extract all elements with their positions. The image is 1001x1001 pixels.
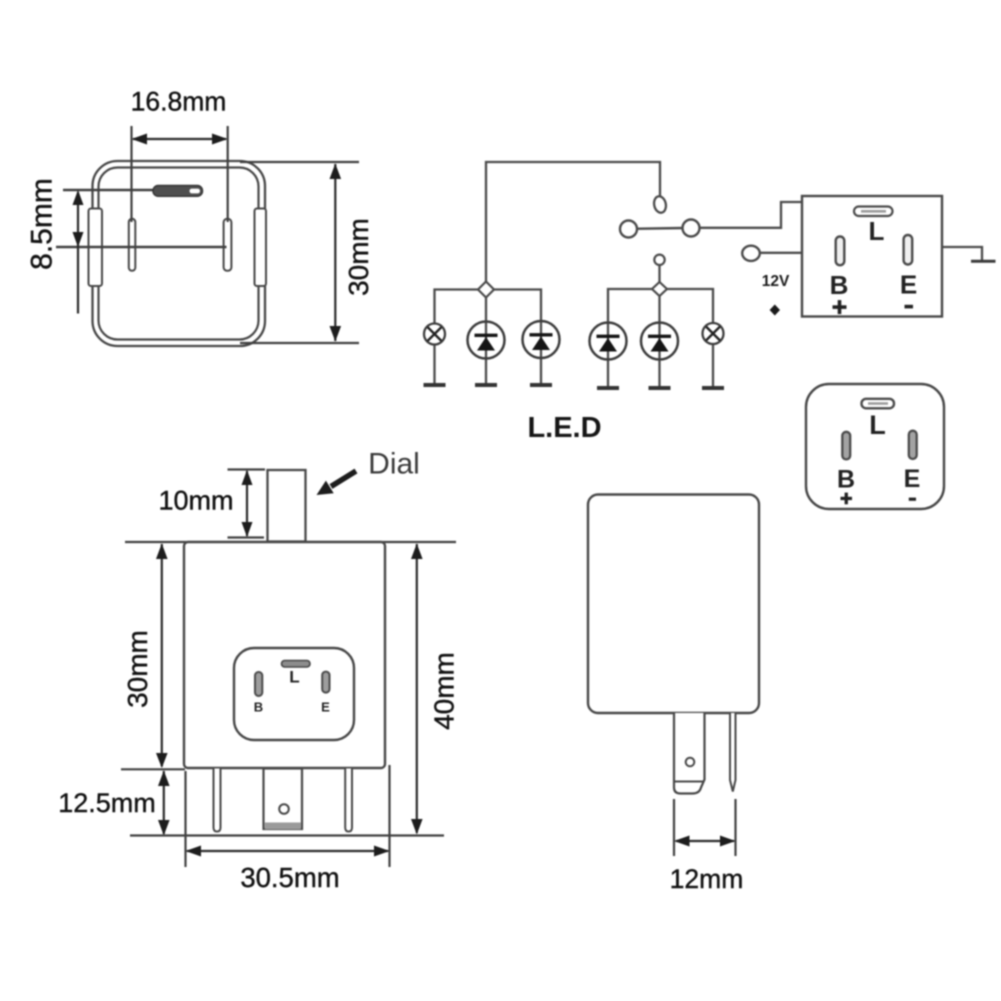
label plus (connector D) [841, 493, 853, 505]
wire box to ground [942, 247, 982, 260]
dimension 12.5mm arrow [158, 771, 170, 836]
dimension 16.8mm extension line right [227, 126, 229, 222]
dimension 16.8mm extension line left [130, 126, 132, 222]
label B (face) [254, 700, 263, 715]
svg-text:10mm: 10mm [158, 486, 233, 516]
wire switch to relay box [700, 202, 803, 228]
dial knob [268, 470, 306, 542]
terminal pin left (bottom view) [129, 219, 136, 271]
LED D3 [590, 323, 627, 389]
key slot (dark bar) [153, 186, 203, 197]
body bottom extension line left [121, 768, 185, 770]
node diamond left [478, 282, 494, 298]
label L (connector D) [869, 410, 886, 440]
pin E (face) [322, 672, 329, 693]
lamp right [703, 323, 724, 388]
svg-text:B: B [254, 700, 263, 715]
dimension 30mm(A) arrow [330, 164, 342, 342]
relay body (side view) [184, 542, 385, 768]
center blade terminal [264, 769, 303, 830]
dimension 10mm tick top [228, 468, 266, 470]
dimension 30.5mm tick right [388, 765, 390, 867]
dimension 10mm label [158, 486, 233, 516]
label minus (connector D) [909, 498, 916, 501]
pin B (connector D) [842, 432, 850, 460]
ground (LED D4) [649, 386, 671, 390]
terminal pin right (bottom view) [224, 219, 232, 271]
ground (LED D2) [530, 383, 552, 387]
svg-text:12V: 12V [762, 273, 790, 290]
dimension 30mm(E) label [122, 630, 153, 708]
dimension 30.5mm tick left [184, 771, 186, 867]
svg-text:30mm: 30mm [343, 218, 374, 296]
label B (connector D) [837, 466, 855, 494]
label minus (box C) [905, 305, 914, 309]
lamp left [424, 324, 445, 386]
dimension 10mm tick bottom [228, 536, 265, 538]
wire top run [486, 162, 660, 289]
connector D outline [806, 384, 944, 509]
dimension 40mm arrow [411, 544, 423, 835]
svg-text:30.5mm: 30.5mm [240, 862, 339, 893]
right LED4 drop wire [658, 294, 660, 323]
center blade terminal (F) [674, 713, 705, 794]
ground (LED D3) [597, 386, 619, 390]
svg-text:12mm: 12mm [670, 864, 744, 894]
relay case outer outline [93, 161, 266, 346]
pin E (connector D) [909, 431, 917, 459]
pin E (box C) [904, 235, 913, 265]
reference line 8.5mm bottom (to right pin) [56, 246, 227, 248]
12V supply terminal [742, 246, 760, 261]
svg-text:E: E [900, 270, 917, 300]
label E (connector D) [904, 465, 921, 493]
slot L (box C) [854, 207, 893, 217]
svg-text:L: L [289, 668, 299, 687]
left LED1 drop wire [485, 294, 487, 324]
dimension 30mm(A) extension line bottom [240, 342, 359, 344]
label L.E.D [527, 412, 601, 444]
svg-text:12.5mm: 12.5mm [58, 788, 156, 818]
ground (box C) [971, 260, 996, 263]
dimension 30mm(A) label [343, 218, 374, 296]
body top extension line [125, 541, 456, 543]
svg-text:40mm: 40mm [429, 652, 460, 730]
label E (box C) [900, 270, 917, 300]
svg-text:8.5mm: 8.5mm [26, 178, 59, 270]
left branch bus wire [435, 290, 542, 324]
left side notch [89, 209, 103, 287]
relay box outline [802, 196, 942, 317]
switch lever wire [619, 228, 684, 229]
dimension 12.5mm label [58, 788, 156, 818]
thin pin (F) [730, 713, 736, 792]
slot L (face) [282, 661, 311, 668]
svg-text:E: E [321, 700, 330, 715]
svg-text:30mm: 30mm [122, 630, 153, 708]
svg-text:L: L [869, 216, 885, 246]
ground (lamp left) [424, 383, 446, 387]
dimension 12mm arrow [674, 836, 736, 847]
bottom extension line long [130, 834, 444, 836]
ground (lamp right) [702, 386, 724, 390]
label E (face) [321, 700, 330, 715]
label B (box C) [830, 270, 849, 300]
LED D2 [523, 321, 560, 385]
dimension 8.5mm label [26, 178, 59, 270]
label Dial [368, 448, 420, 481]
dial pointer arrow [317, 471, 357, 495]
svg-text:B: B [837, 466, 855, 494]
dimension 40mm label [429, 652, 460, 730]
wire contact to node [658, 265, 660, 284]
slot L (connector D) [862, 399, 895, 409]
dimension 30mm(A) extension line top [240, 161, 359, 163]
LED D4 [641, 323, 678, 389]
dimension 16.8mm label [131, 87, 227, 117]
dimension 12mm tick left [673, 799, 675, 856]
dimension 12mm label [670, 864, 744, 894]
wire terminal to box [760, 252, 802, 254]
pin left (side view) [214, 769, 221, 832]
svg-text:L: L [869, 410, 886, 440]
svg-text:L.E.D: L.E.D [527, 412, 601, 444]
label L (box C) [869, 216, 885, 246]
label 12V [762, 273, 790, 290]
svg-text:Dial: Dial [368, 448, 420, 481]
switch moving contact [620, 221, 637, 238]
relay body outline [588, 495, 759, 714]
svg-text:E: E [904, 465, 921, 493]
dimension 30mm(E) arrow [156, 544, 168, 769]
pin right (side view) [345, 769, 352, 832]
dimension 30.5mm label [240, 862, 339, 893]
switch pivot contact [653, 195, 668, 214]
right branch bus wire [608, 289, 713, 323]
label L (face) [289, 668, 299, 687]
svg-text:16.8mm: 16.8mm [131, 87, 227, 117]
node diamond right [652, 282, 667, 296]
switch fixed contact [683, 220, 700, 237]
pin B (face) [255, 672, 262, 696]
label plus (box C) [833, 300, 847, 314]
relay case inner outline [99, 168, 259, 340]
ground (LED D1) [475, 383, 497, 387]
LED D1 [468, 322, 505, 386]
dimension 8.5mm arrow [73, 190, 84, 314]
dimension 30.5mm arrow [186, 846, 390, 857]
dimension 10mm arrow [242, 470, 253, 537]
right side notch [255, 209, 267, 287]
reference line 8.5mm top (to key slot) [63, 189, 160, 191]
svg-text:B: B [830, 270, 849, 300]
plus marker [770, 305, 780, 316]
connector face outline [234, 648, 354, 740]
dimension 16.8mm arrow line [132, 134, 228, 145]
dimension 12mm tick right [734, 799, 736, 856]
lower switch contact [654, 255, 664, 265]
pin B (box C) [836, 237, 845, 266]
